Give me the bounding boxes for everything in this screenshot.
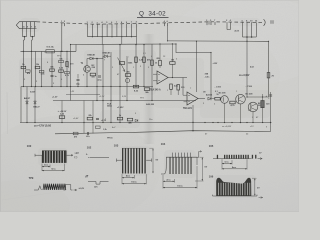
svg-text:103: 103 [114, 144, 119, 148]
svg-text:≈0,6V: ≈0,6V [79, 187, 85, 190]
svg-text:1N4148: 1N4148 [87, 54, 95, 57]
svg-text:0,1: 0,1 [215, 91, 218, 93]
svg-text:Q 34-02: Q 34-02 [139, 10, 166, 17]
svg-text:100k: 100k [128, 63, 134, 65]
svg-text:4,52: 4,52 [250, 66, 254, 69]
svg-text:TCA 345 A: TCA 345 A [150, 88, 161, 91]
svg-text:BA127: BA127 [24, 97, 31, 100]
svg-text:345A: 345A [107, 105, 112, 108]
svg-text:106: 106 [209, 174, 214, 178]
svg-text:11: 11 [22, 26, 24, 28]
svg-text:1N4148: 1N4148 [102, 51, 110, 54]
svg-text:≈ +10,5V: ≈ +10,5V [58, 110, 67, 113]
svg-text:1M: 1M [171, 59, 174, 61]
svg-text:7: 7 [31, 26, 32, 28]
svg-text:+0,6V: +0,6V [73, 118, 79, 120]
svg-text:Si 0,1A: Si 0,1A [46, 46, 54, 49]
svg-text:9: 9 [27, 26, 28, 28]
svg-text:≈1V: ≈1V [75, 152, 80, 155]
svg-text:≈0,6V: ≈0,6V [234, 31, 240, 33]
svg-text:BC 238: BC 238 [246, 93, 254, 95]
svg-text:10ms: 10ms [131, 182, 137, 184]
svg-text:+2,1V: +2,1V [99, 96, 105, 98]
svg-text:BA127: BA127 [33, 106, 40, 109]
svg-text:102: 102 [87, 146, 92, 150]
svg-text:←C100: ←C100 [214, 87, 222, 89]
svg-text:TP9: TP9 [29, 176, 34, 180]
svg-text:1,4V: 1,4V [70, 90, 75, 93]
svg-text:+12V: +12V [213, 63, 218, 65]
svg-text:ca +0,65V: ca +0,65V [222, 126, 232, 128]
svg-text:BC 308: BC 308 [219, 93, 227, 95]
svg-text:(↑): (↑) [75, 156, 78, 159]
svg-text:ca +4,75V (2,6V): ca +4,75V (2,6V) [34, 124, 51, 127]
svg-text:0,65V: 0,65V [30, 92, 36, 94]
svg-text:105: 105 [209, 144, 214, 148]
svg-text:ca +6,06V: ca +6,06V [239, 75, 250, 77]
svg-text:TBA 221: TBA 221 [183, 107, 193, 110]
svg-text:10ms: 10ms [177, 186, 183, 188]
svg-text:+1,95V: +1,95V [117, 107, 124, 109]
svg-text:100: 100 [27, 144, 32, 148]
svg-text:104: 104 [161, 142, 166, 146]
svg-text:AA113: AA113 [206, 94, 213, 97]
svg-text:5: 5 [35, 26, 36, 28]
svg-text:+1,2V: +1,2V [52, 97, 58, 99]
svg-text:←C106: ←C106 [245, 86, 253, 88]
svg-text:+1V: +1V [250, 126, 254, 128]
svg-text:0,2V: 0,2V [122, 96, 127, 98]
svg-text:TP101: TP101 [107, 138, 113, 140]
svg-text:04/0,5W: 04/0,5W [146, 103, 155, 106]
svg-text:-0,5s: -0,5s [205, 76, 211, 78]
